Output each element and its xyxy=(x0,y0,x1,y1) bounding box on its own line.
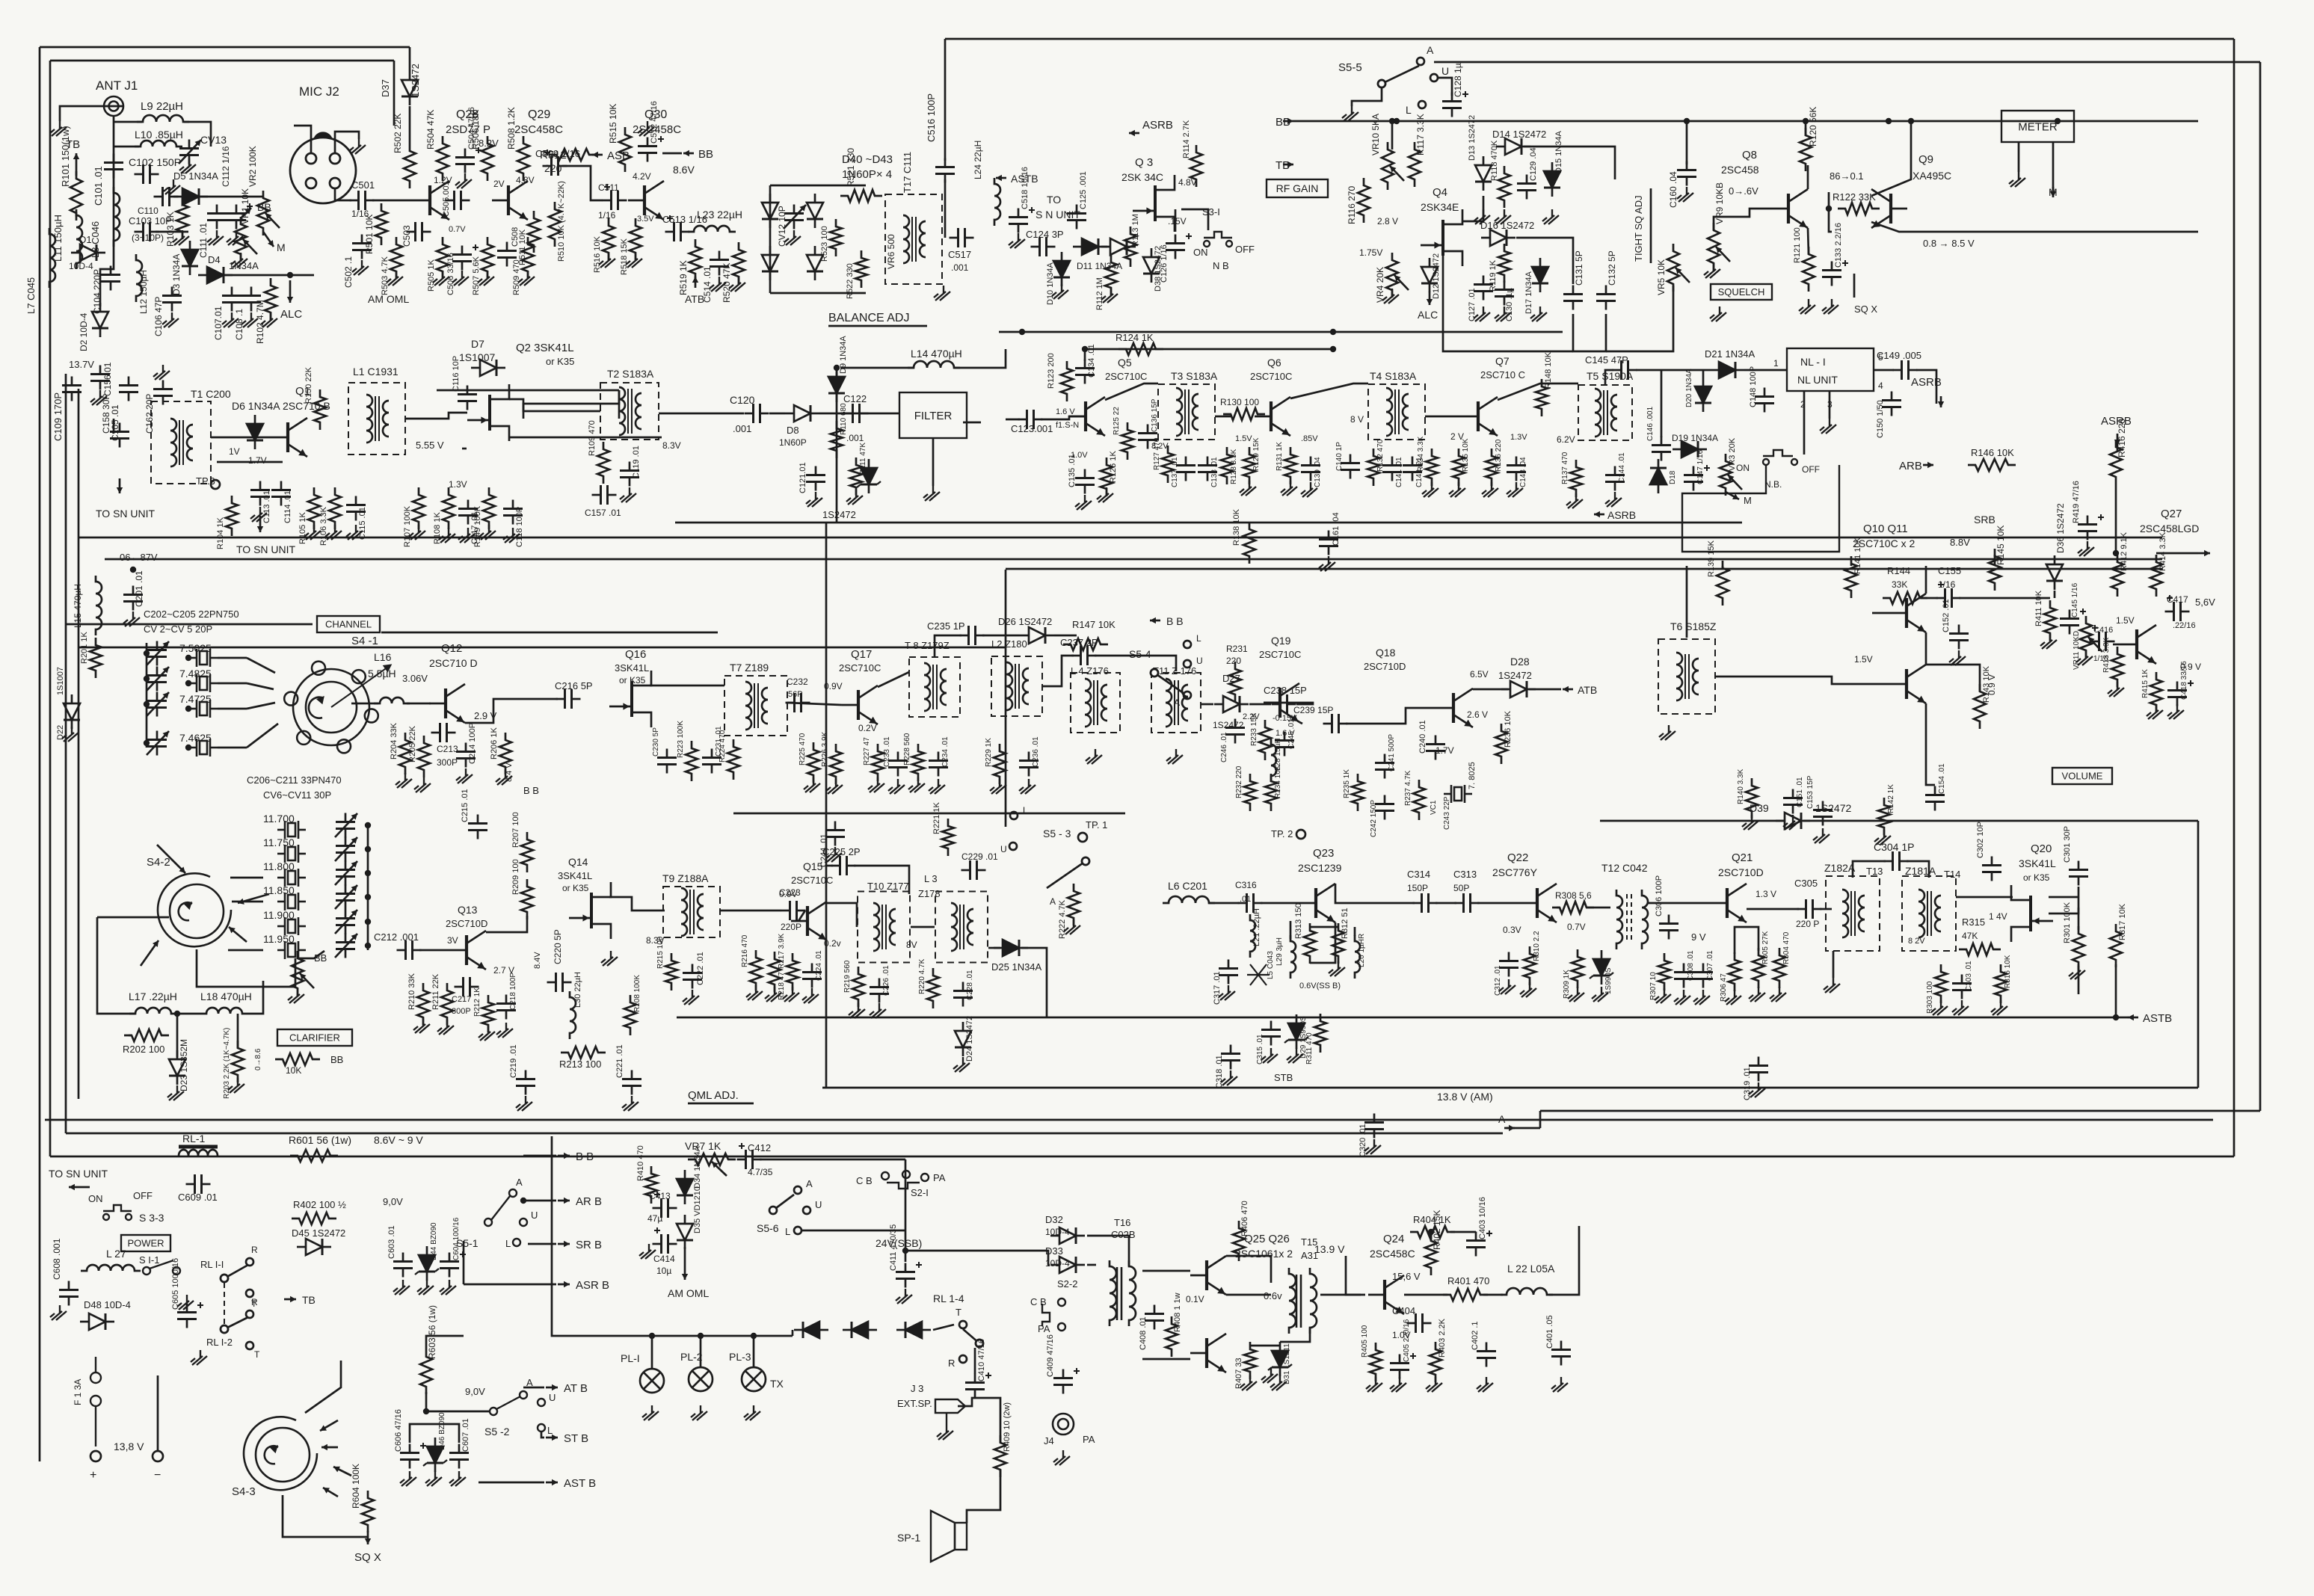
svg-text:R146 10K: R146 10K xyxy=(1971,447,2014,458)
svg-text:R306 47: R306 47 xyxy=(1720,973,1728,1002)
ground C512 xyxy=(638,121,654,136)
svg-text:C122: C122 xyxy=(843,393,867,404)
resistor R601 56 xyxy=(290,1150,338,1162)
ground r411 xyxy=(2040,634,2057,649)
svg-text:1/16: 1/16 xyxy=(598,210,616,221)
lamp PL-2 xyxy=(689,1367,713,1391)
ground r140 xyxy=(1742,815,1758,830)
svg-text:2.6 V: 2.6 V xyxy=(1467,709,1488,720)
transistor Q24 xyxy=(1368,1275,1404,1314)
resistor R209 100 xyxy=(521,879,533,919)
switch S5-6 U xyxy=(803,1207,810,1214)
transformer T3 S183A xyxy=(1158,384,1215,440)
svg-text:R405 100: R405 100 xyxy=(1361,1325,1369,1358)
svg-text:C145 1/16: C145 1/16 xyxy=(2071,582,2079,617)
svg-text:NL UNIT: NL UNIT xyxy=(1797,374,1838,386)
svg-text:D23 1S352M: D23 1S352M xyxy=(179,1039,189,1091)
ground t17 xyxy=(934,286,950,301)
svg-text:R149 100K: R149 100K xyxy=(473,505,482,547)
wire c145 nl xyxy=(1636,369,1710,372)
ground d13 xyxy=(1474,209,1490,224)
wire ant down xyxy=(113,116,115,232)
switch RL1-2 T xyxy=(246,1342,253,1349)
wire bus y719 xyxy=(79,537,2162,539)
capacitor C518 10/16 plus xyxy=(1029,207,1035,213)
pot VR4 20K xyxy=(1386,253,1398,298)
trimmer 11.800 arrow xyxy=(335,861,357,885)
svg-text:D8: D8 xyxy=(787,425,799,436)
wire s41 link lines2 xyxy=(247,683,274,689)
capacitor C237 2P xyxy=(1072,646,1097,665)
wire q23 down xyxy=(1290,921,1292,939)
svg-text:1.3 V: 1.3 V xyxy=(1755,889,1776,899)
svg-text:Q25 Q26: Q25 Q26 xyxy=(1244,1233,1290,1245)
svg-text:C105 .01: C105 .01 xyxy=(110,404,120,441)
svg-text:J4: J4 xyxy=(1044,1435,1054,1446)
svg-text:R122 33K: R122 33K xyxy=(1833,191,1876,203)
ground c118 xyxy=(503,528,520,543)
ground r301 xyxy=(2069,964,2085,979)
svg-text:R116 270: R116 270 xyxy=(1347,186,1357,224)
capacitor C504 47/16 xyxy=(455,149,475,173)
svg-text:C242 150P: C242 150P xyxy=(1370,800,1378,837)
resistor R403 2.2K xyxy=(1430,1342,1441,1382)
svg-text:D20 1N34A: D20 1N34A xyxy=(1685,369,1693,407)
svg-text:C503: C503 xyxy=(401,225,412,247)
wire tight sq underline xyxy=(1650,188,1652,263)
switch S5-6 A xyxy=(794,1186,801,1194)
svg-text:J 3: J 3 xyxy=(911,1383,923,1394)
svg-text:Z182A: Z182A xyxy=(1824,862,1856,874)
svg-text:C156.01: C156.01 xyxy=(102,362,113,396)
svg-text:SQUELCH: SQUELCH xyxy=(1718,286,1765,298)
node midtop b xyxy=(1330,329,1336,335)
resistor R217 3.9K xyxy=(769,952,781,992)
block NL-1 NL UNIT xyxy=(1787,348,1874,391)
svg-text:R502 22K: R502 22K xyxy=(393,114,403,153)
wire tx row2 xyxy=(933,1325,954,1330)
resistor R508 1.2K xyxy=(517,136,529,181)
resistor R111 47K xyxy=(850,457,862,495)
capacitor C155 1/16 plus xyxy=(1938,582,1944,588)
svg-text:PL-3: PL-3 xyxy=(729,1351,751,1363)
node ARB arrow xyxy=(1923,462,1933,468)
svg-text:A: A xyxy=(1427,44,1434,56)
switch S4-1 xyxy=(284,662,390,754)
node TP.2 xyxy=(1296,830,1305,839)
capacitor C513 1/16 xyxy=(665,222,690,241)
svg-text:D16 1S2472: D16 1S2472 xyxy=(1480,220,1534,231)
resistor R307 10 xyxy=(1658,953,1670,990)
ground r205 xyxy=(414,777,431,792)
switch S5-3 com xyxy=(1082,857,1089,865)
wire pl1 drop xyxy=(651,1336,653,1369)
resistor R406 470 xyxy=(1233,1221,1245,1261)
wire q22 r308 xyxy=(1557,907,1560,909)
diode D13 1S2472 xyxy=(1475,156,1492,191)
ground r304 xyxy=(1770,987,1786,1002)
svg-text:R237 4.7K: R237 4.7K xyxy=(1404,770,1412,806)
ground c221 xyxy=(622,1096,638,1111)
capacitor C239 15P xyxy=(1323,714,1348,733)
wire BB rail xyxy=(1293,120,2198,123)
capacitor C144 .01 xyxy=(1605,466,1625,491)
resistor R231 xyxy=(1229,662,1241,702)
wire meter arrow xyxy=(2052,172,2055,196)
wire vertical x1345 xyxy=(1005,570,1007,827)
crystal 11.850 xyxy=(277,893,306,911)
resistor R206 1K xyxy=(499,733,511,774)
svg-text:C124 3P: C124 3P xyxy=(1026,229,1064,240)
resistor R412 9.1K xyxy=(2111,555,2123,597)
capacitor C157 .01 xyxy=(592,485,617,505)
capacitor C518 10/16 xyxy=(1009,209,1028,233)
svg-text:R109 470: R109 470 xyxy=(588,420,597,456)
wire l14 c123 xyxy=(954,349,1006,368)
svg-text:POWER: POWER xyxy=(127,1238,164,1249)
svg-text:1.5V: 1.5V xyxy=(1235,434,1252,443)
svg-text:Q12: Q12 xyxy=(441,642,462,655)
svg-text:D34 1N34A: D34 1N34A xyxy=(693,1145,702,1189)
svg-text:8.4 V: 8.4 V xyxy=(505,762,514,782)
capacitor C148 100P xyxy=(1755,388,1774,413)
node ATB arrow xyxy=(692,277,698,288)
diode D6 1N34A xyxy=(247,415,263,449)
ground R520 xyxy=(729,277,745,292)
wire bb arrow lead xyxy=(523,1155,556,1157)
resistor R132 470 xyxy=(1367,449,1379,486)
diode D38 1S2472 xyxy=(1143,248,1160,283)
node STB out arrow xyxy=(546,1435,558,1441)
svg-text:R137 470: R137 470 xyxy=(1561,452,1569,484)
pot VR5 10K xyxy=(1667,244,1679,292)
wire r313 r312 top xyxy=(1310,926,1338,928)
svg-text:R305 27K: R305 27K xyxy=(1761,931,1770,964)
node ATB arrow2 xyxy=(1563,686,1573,692)
svg-text:R504 47K: R504 47K xyxy=(425,110,436,150)
trimmer CV3 arrow xyxy=(147,667,169,691)
svg-text:2SC710D: 2SC710D xyxy=(1364,661,1406,672)
wire l2 c237 xyxy=(1042,656,1074,686)
capacitor C413 47u xyxy=(653,1198,677,1218)
svg-text:Q19: Q19 xyxy=(1271,635,1291,647)
svg-text:R202 100: R202 100 xyxy=(123,1044,164,1055)
svg-text:F 1 3A: F 1 3A xyxy=(73,1379,83,1405)
svg-text:OFF: OFF xyxy=(1802,464,1820,475)
ground R112 xyxy=(1101,288,1118,303)
svg-text:A31: A31 xyxy=(1301,1250,1318,1261)
node xtal 7.4725 b xyxy=(185,706,191,712)
diode D25 1N34A xyxy=(994,940,1028,956)
svg-text:L: L xyxy=(1196,633,1201,644)
capacitor C503 .01 xyxy=(407,222,431,241)
wire bottom wrap bus outer xyxy=(50,1156,2234,1158)
wire c225 out xyxy=(854,866,909,894)
wire d25 out xyxy=(1021,948,1047,1017)
svg-text:R208 100K: R208 100K xyxy=(633,975,641,1012)
capacitor C403 10/16 xyxy=(1466,1232,1486,1257)
svg-text:TIGHT SQ ADJ: TIGHT SQ ADJ xyxy=(1633,195,1644,262)
wire outer border drop D37 xyxy=(409,47,411,71)
crystal VC1 7.8025 xyxy=(1444,785,1472,803)
wire j3 r409 xyxy=(958,1398,1000,1443)
resistor R312 51 xyxy=(1332,923,1344,964)
svg-text:8V: 8V xyxy=(906,940,917,950)
svg-text:R136 220: R136 220 xyxy=(1495,439,1503,472)
resistor R222 4.7K xyxy=(1068,884,1080,925)
inductor L11 xyxy=(76,209,82,269)
ground d15 xyxy=(1542,209,1559,224)
ground r204 xyxy=(396,773,412,788)
svg-text:CV 2~CV 5 20P: CV 2~CV 5 20P xyxy=(144,623,212,635)
svg-text:D44 BZ090: D44 BZ090 xyxy=(430,1222,438,1260)
capacitor C162 20P xyxy=(153,380,173,405)
svg-text:D48 10D-4: D48 10D-4 xyxy=(84,1299,131,1310)
svg-text:C213: C213 xyxy=(437,744,458,754)
svg-text:R410 470: R410 470 xyxy=(636,1145,645,1181)
wire d27 c238 xyxy=(1249,703,1271,706)
ground r405 xyxy=(1366,1377,1382,1392)
ground r303 xyxy=(1931,1000,1948,1015)
svg-text:N.B.: N.B. xyxy=(1764,479,1782,490)
fuse F1 3A xyxy=(90,1357,101,1446)
pot VR10 5KA xyxy=(1382,142,1394,190)
wire meter gnd lead xyxy=(2018,142,2020,172)
capacitor C109 170P xyxy=(62,377,81,401)
trimmer 11.850 xyxy=(336,885,355,910)
svg-text:A: A xyxy=(1498,1113,1506,1125)
capacitor C514 .01 xyxy=(710,251,729,276)
svg-text:D1: D1 xyxy=(79,234,92,245)
svg-text:L: L xyxy=(505,1238,511,1249)
node q27 out arrow xyxy=(2198,550,2210,556)
switch RL1-4 T xyxy=(959,1321,967,1328)
svg-text:R411 10K: R411 10K xyxy=(2034,590,2043,626)
resistor R201 1K xyxy=(90,638,102,678)
switch S5-3 L xyxy=(1010,812,1018,819)
wire q10 base xyxy=(1872,612,1890,614)
svg-text:C230 5P: C230 5P xyxy=(652,727,660,757)
capacitor C504 47/16 plus xyxy=(476,147,481,153)
ground c312 xyxy=(1499,979,1516,994)
svg-text:U: U xyxy=(1000,844,1007,854)
resistor R405 100 xyxy=(1370,1343,1382,1381)
ground c130 xyxy=(1495,306,1511,321)
svg-text:R223 100K: R223 100K xyxy=(677,721,685,758)
ground R516 xyxy=(599,253,615,268)
transistor Q3 2SK34C xyxy=(1133,175,1175,232)
svg-text:C107.01: C107.01 xyxy=(213,306,224,340)
node 9v s52 xyxy=(423,1408,429,1414)
svg-text:5.5µH: 5.5µH xyxy=(368,668,396,680)
transistor Q5 xyxy=(1069,397,1105,436)
wire r401 l22 xyxy=(1483,1294,1503,1296)
diode D26 1S2472 xyxy=(1020,627,1054,644)
resistor R134 3.3K xyxy=(1426,449,1438,486)
switch RL1-1 xyxy=(221,1265,248,1282)
svg-text:2SC458C: 2SC458C xyxy=(514,123,563,136)
wire c225 link xyxy=(827,865,833,867)
svg-text:VR2 100K: VR2 100K xyxy=(247,146,258,187)
wire t12 core2 xyxy=(1631,894,1632,943)
svg-text:Q13: Q13 xyxy=(458,904,478,916)
ground c319 xyxy=(1749,1082,1765,1097)
wire c126 lead xyxy=(1175,209,1177,232)
capacitor C509 1/16 xyxy=(543,156,567,176)
wire ant left stub xyxy=(60,106,104,121)
trimmer 11.950 xyxy=(336,934,355,958)
ground c608 xyxy=(50,1305,67,1320)
transistor Q30 xyxy=(628,181,664,220)
wire bus y691 xyxy=(675,522,1742,524)
svg-text:ARB: ARB xyxy=(1899,460,1922,472)
transformer T9 Z188A xyxy=(663,887,720,937)
svg-text:C123.001: C123.001 xyxy=(1011,423,1053,434)
resistor R130 100 xyxy=(1223,408,1265,420)
diode D3 1N34A xyxy=(182,241,198,275)
node TP.1 xyxy=(1078,833,1087,842)
wire s41 link lines3 xyxy=(247,703,275,709)
capacitor C513 1/16 plus xyxy=(667,215,673,221)
diode D31 1S1211 xyxy=(1272,1342,1288,1376)
transistor Q13 xyxy=(450,931,486,970)
svg-text:C607 .01: C607 .01 xyxy=(461,1418,470,1452)
capacitor C133 2.2/16 plus xyxy=(1842,260,1848,266)
transistor Q1 xyxy=(271,418,307,457)
resistor R205 22K xyxy=(418,736,430,777)
svg-text:300P: 300P xyxy=(437,757,458,768)
svg-text:C137 .01: C137 .01 xyxy=(1171,457,1179,487)
ground r203 xyxy=(228,1078,244,1093)
diode D44 BZ090 bend xyxy=(415,1269,439,1275)
capacitor C229 .01 xyxy=(961,860,986,880)
diode D46 BZ090 bend xyxy=(423,1460,447,1466)
resistor R122 33K xyxy=(1838,203,1880,215)
node ASTB arrow tx xyxy=(2128,1014,2138,1020)
capacitor C126 1/16 plus xyxy=(1186,233,1192,239)
svg-text:CV6~CV11 30P: CV6~CV11 30P xyxy=(263,789,331,801)
ground VR1 xyxy=(231,253,247,268)
svg-text:or K35: or K35 xyxy=(546,356,574,367)
capacitor C125 .001 xyxy=(1067,205,1086,229)
diode D10 1N34A xyxy=(1053,252,1070,286)
svg-text:300P: 300P xyxy=(452,1007,471,1016)
ground c153b xyxy=(1813,828,1830,843)
wire c223 q15 xyxy=(798,911,805,921)
svg-text:.85V: .85V xyxy=(1301,434,1318,443)
diode D29 1S990S bend xyxy=(1284,1037,1308,1043)
node tosn arrow xyxy=(69,1184,90,1190)
svg-text:24V(SSB): 24V(SSB) xyxy=(876,1237,922,1249)
diode D39 1S2472 xyxy=(1776,813,1810,829)
ground c317 xyxy=(1219,985,1235,1000)
wire q15 t10 xyxy=(827,903,857,927)
svg-text:+: + xyxy=(90,1469,96,1482)
capacitor C145 47P xyxy=(1613,360,1637,380)
crystal 11.750 xyxy=(277,845,306,863)
diode D15 1N34A xyxy=(1544,162,1560,197)
svg-text:R216 470: R216 470 xyxy=(741,934,749,967)
resistor R316 10K xyxy=(1995,964,2007,1003)
transistor Q21 xyxy=(1711,884,1747,922)
svg-text:M: M xyxy=(1744,495,1752,506)
node ASRB arrow vol xyxy=(2114,434,2120,446)
wire d39 to right xyxy=(2197,821,2200,1088)
ground q14 xyxy=(601,951,618,966)
svg-text:47µ: 47µ xyxy=(647,1213,662,1224)
ground C162 xyxy=(153,365,170,380)
transformer L1 C1931 xyxy=(348,383,405,455)
wire q11 coll xyxy=(1926,665,1980,691)
wire c516 riser xyxy=(944,39,947,161)
svg-text:C225 2P: C225 2P xyxy=(822,846,861,857)
capacitor C517 .001 xyxy=(950,228,974,247)
capacitor C161 .04 xyxy=(1319,531,1338,555)
svg-text:56P: 56P xyxy=(788,690,803,699)
resistor R149 100K xyxy=(483,487,495,529)
diode D16 1S2472 xyxy=(1481,229,1516,246)
transformer Z182A T13 xyxy=(1826,876,1880,951)
svg-text:C316: C316 xyxy=(1235,880,1257,890)
resistor R603 56 xyxy=(420,1349,432,1394)
capacitor C119 .01 xyxy=(620,462,639,487)
svg-text:or K35: or K35 xyxy=(2023,872,2050,883)
svg-text:VOLUME: VOLUME xyxy=(2062,771,2103,782)
svg-text:R110 680: R110 680 xyxy=(840,403,848,435)
node s42 arr2 xyxy=(238,894,269,905)
capacitor C224 .01 xyxy=(802,964,822,988)
wire c314 c313 xyxy=(1436,902,1456,905)
inductor T16 sec xyxy=(1129,1260,1136,1326)
resistor R520 47K xyxy=(733,242,745,284)
transistor Q14 3SK41L xyxy=(569,882,611,939)
svg-text:R213 100: R213 100 xyxy=(559,1059,601,1070)
svg-text:C155: C155 xyxy=(1938,565,1961,576)
svg-text:0→.6V: 0→.6V xyxy=(1729,185,1758,197)
ground c115 xyxy=(346,525,363,540)
svg-text:R117 3.3K: R117 3.3K xyxy=(1415,114,1426,155)
svg-text:2SC458C: 2SC458C xyxy=(1370,1248,1415,1260)
ground r135 xyxy=(1449,482,1465,497)
inductor T12 sec xyxy=(1642,890,1648,949)
wire q27 out xyxy=(2156,552,2198,555)
svg-text:Q20: Q20 xyxy=(2031,842,2052,855)
svg-text:5,6V: 5,6V xyxy=(2195,597,2215,608)
ground d29 xyxy=(1287,1048,1303,1063)
box RF GAIN xyxy=(1267,179,1328,197)
wire r308 t12 xyxy=(1587,907,1610,909)
svg-text:0.6v: 0.6v xyxy=(1264,1290,1282,1301)
wire d26 out xyxy=(1054,635,1077,637)
relay RL-1 xyxy=(179,1147,218,1156)
capacitor C304 1P xyxy=(1884,851,1909,871)
capacitor C118 100P xyxy=(503,500,523,525)
ground r111 xyxy=(846,490,863,505)
svg-text:R145 10K: R145 10K xyxy=(1995,526,2006,565)
diode TX d3 xyxy=(896,1322,931,1338)
capacitor C128 1u xyxy=(1442,93,1462,117)
svg-text:1S1007: 1S1007 xyxy=(459,351,495,363)
svg-text:L14 470µH: L14 470µH xyxy=(911,348,962,360)
capacitor C501 1/16 xyxy=(350,191,375,210)
svg-text:C141 .01: C141 .01 xyxy=(1395,457,1403,487)
ground r118 xyxy=(1495,209,1511,224)
switch RL1-4 com xyxy=(976,1340,983,1347)
resistor R235 1K xyxy=(1352,774,1364,811)
box SQUELCH xyxy=(1711,284,1772,300)
capacitor C319 .01 xyxy=(1749,1057,1768,1082)
capacitor C604 100/16 plus xyxy=(460,1251,466,1257)
